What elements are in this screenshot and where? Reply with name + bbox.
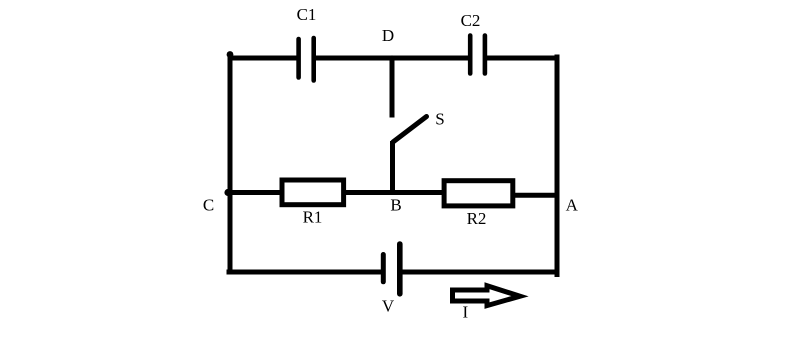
svg-text:A: A (566, 196, 579, 215)
svg-text:I: I (462, 303, 468, 322)
wire middle left segment (227, 190, 283, 195)
svg-text:R1: R1 (303, 208, 323, 227)
wire bottom left segment (227, 270, 382, 275)
svg-text:B: B (390, 196, 401, 215)
switch S blade (393, 117, 427, 143)
wire top middle segment (316, 56, 468, 61)
svg-text:C: C (203, 196, 214, 215)
node D junction (389, 55, 394, 60)
resistor R2 (444, 181, 513, 206)
wire top left segment (228, 56, 298, 61)
node top-left corner dot (227, 51, 234, 58)
svg-text:D: D (382, 26, 394, 45)
svg-text:S: S (435, 110, 444, 129)
wire right vertical A branch (555, 55, 560, 278)
wire middle right segment (513, 193, 559, 198)
wire node D drop (390, 58, 395, 118)
wire left vertical C branch (228, 54, 233, 275)
node C junction dot (224, 189, 231, 196)
wire top right segment (487, 56, 559, 61)
svg-text:V: V (382, 297, 395, 316)
battery V (383, 244, 400, 294)
resistor R1 (282, 180, 344, 205)
capacitor C1 (299, 38, 314, 81)
current arrow I (453, 286, 521, 306)
svg-text:C2: C2 (461, 11, 481, 30)
wire node B riser (390, 141, 395, 194)
wire bottom right segment (403, 270, 560, 275)
svg-text:C1: C1 (297, 5, 317, 24)
capacitor C2 (470, 36, 485, 74)
svg-text:R2: R2 (467, 209, 487, 228)
wire middle center segment (344, 190, 444, 195)
